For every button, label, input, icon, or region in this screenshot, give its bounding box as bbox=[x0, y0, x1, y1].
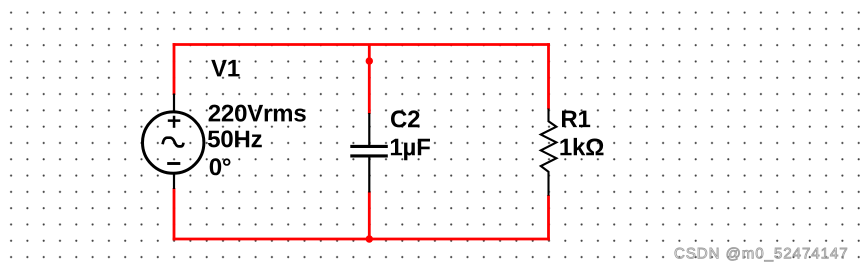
junction top middle bbox=[366, 57, 373, 64]
ac source V1 lead bottom bbox=[173, 172, 175, 189]
label V1 bbox=[211, 60, 239, 77]
wire: right vertical upper bbox=[547, 43, 550, 109]
label 0deg bbox=[210, 158, 231, 175]
wire: left vertical upper bbox=[173, 43, 176, 95]
ac source V1 minus sign bbox=[167, 162, 180, 165]
watermark CSDN bbox=[675, 247, 847, 261]
capacitor C2 bottom plate bbox=[350, 154, 388, 157]
label 50Hz bbox=[208, 130, 262, 147]
label 1kOhm bbox=[560, 138, 603, 155]
capacitor C2 lead bottom bbox=[368, 158, 370, 193]
ac source V1 sine symbol bbox=[163, 138, 184, 147]
label 1uF bbox=[391, 139, 430, 161]
ac source V1 circle bbox=[143, 112, 204, 173]
ac source V1 lead top bbox=[173, 94, 175, 114]
wire: left vertical lower bbox=[173, 188, 176, 240]
wire: right vertical lower bbox=[547, 195, 550, 240]
capacitor C2 top plate bbox=[350, 145, 388, 148]
label 220Vrms bbox=[209, 105, 306, 122]
junction bottom middle bbox=[366, 235, 373, 242]
wire: middle vertical upper bbox=[368, 45, 371, 115]
resistor R1 zigzag bbox=[541, 109, 557, 196]
label C2 bbox=[391, 110, 420, 127]
wire: bottom rail bbox=[173, 238, 550, 241]
wire: middle vertical lower bbox=[368, 192, 371, 240]
label R1 bbox=[562, 111, 590, 128]
capacitor C2 lead top bbox=[368, 113, 370, 145]
wire: top rail bbox=[173, 43, 550, 46]
ac source V1 plus sign bbox=[168, 116, 181, 128]
